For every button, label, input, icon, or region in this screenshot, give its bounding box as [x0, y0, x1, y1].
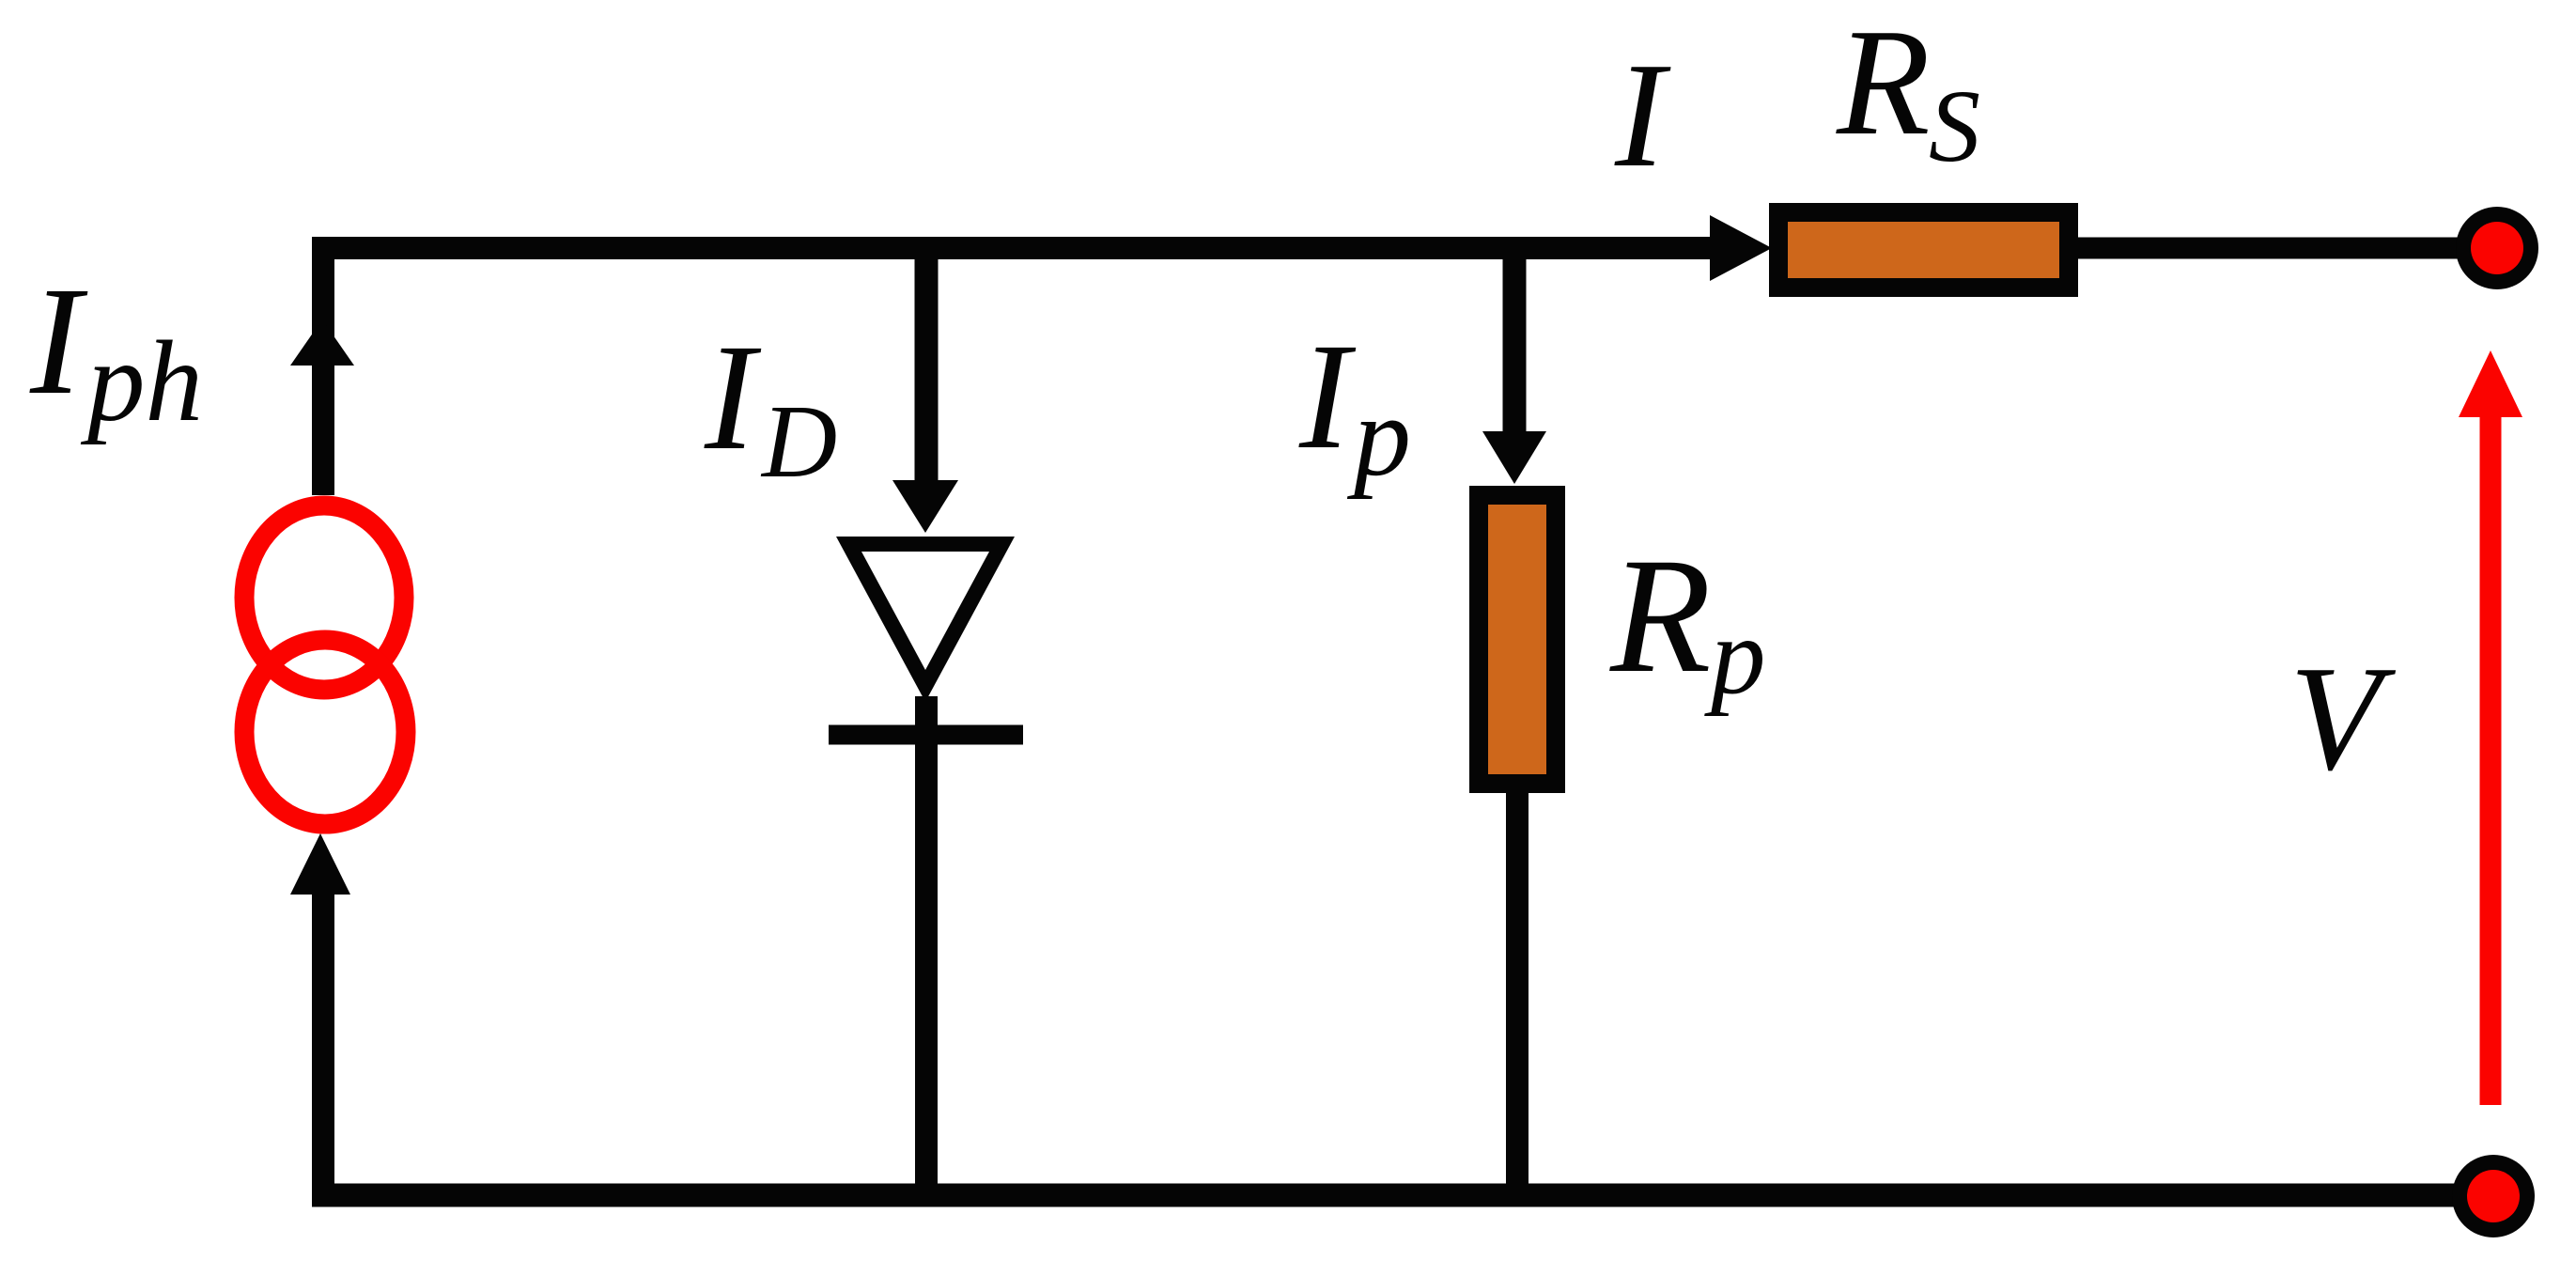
arrow: I output current through Rs (pointing right) — [1710, 215, 1772, 281]
current source Iph (two overlapping red circles) — [244, 506, 406, 824]
resistor Rs (horizontal orange box) — [1778, 212, 2069, 288]
svg-text:I: I — [1298, 313, 1357, 481]
arrow: current into current source from bottom rail (pointing up) — [290, 833, 350, 895]
wire: diode branch lower segment to bottom rail — [915, 696, 938, 1195]
svg-text:S: S — [1929, 69, 1980, 183]
diode D cathode bar — [829, 725, 1023, 745]
svg-text:p: p — [1704, 596, 1766, 717]
wire: shunt-resistor branch lower segment to bottom rail — [1506, 784, 1529, 1195]
svg-text:I: I — [29, 255, 88, 427]
diode D (anode triangle, outlined) — [836, 537, 1015, 702]
wire: diode branch upper segment — [915, 248, 939, 485]
svg-text:R: R — [1609, 524, 1712, 708]
svg-text:I: I — [704, 314, 762, 482]
wire: shunt-resistor branch upper segment — [1503, 248, 1527, 437]
terminal: negative output node (bottom right) — [2452, 1155, 2535, 1237]
arrow: Ip current into Rp (pointing down) — [1482, 431, 1546, 484]
wire: bottom rail — [312, 1184, 2493, 1207]
terminal: positive output node (top right) — [2456, 207, 2538, 289]
svg-text:ph: ph — [80, 317, 203, 445]
arrow: ID current into diode (pointing down) — [892, 480, 958, 533]
wire: output segment from Rs to positive terminal — [2078, 238, 2493, 259]
svg-text:p: p — [1346, 373, 1411, 500]
svg-text:I: I — [1614, 31, 1671, 198]
svg-text:D: D — [760, 384, 837, 500]
svg-text:R: R — [1836, 0, 1931, 167]
arrow: Iph current direction (upper-left, pointing up) — [290, 319, 354, 366]
wire: left branch lower segment from current source to bottom rail — [312, 883, 334, 1195]
wire: left riser from current source up to top rail — [312, 248, 334, 495]
svg-text:V: V — [2289, 634, 2397, 801]
resistor Rp (vertical orange box) — [1479, 495, 1556, 784]
wire: top rail from top-left corner to series-resistor arrow — [312, 237, 1729, 259]
arrow: V output voltage (red, pointing up) — [2480, 413, 2502, 1105]
